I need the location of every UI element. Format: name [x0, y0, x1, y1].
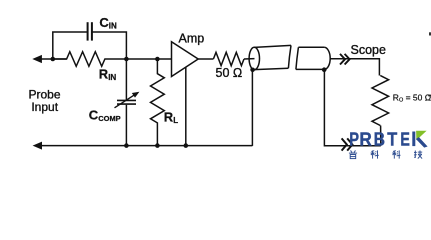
wire: probe input top lead with left arrow — [38, 58, 67, 60]
wire: amp output — [198, 58, 213, 60]
svg-text:RL: RL — [164, 110, 178, 126]
resistor R1 R_IN zigzag — [53, 52, 127, 67]
wire into coax — [244, 58, 255, 60]
svg-text:P: P — [349, 129, 359, 150]
svg-text:B: B — [374, 128, 385, 150]
arrow across C_COMP — [115, 94, 136, 108]
node A: top-left junction — [51, 57, 56, 62]
op-amp U1 Amp triangle — [172, 42, 199, 77]
wire: coax to scope with chevrons — [330, 58, 379, 60]
svg-text:CIN: CIN — [99, 15, 117, 31]
wire: C_IN loop left/top/right — [53, 32, 87, 59]
logo PRBTEK — [349, 129, 359, 150]
svg-text:RO = 50 Ω: RO = 50 Ω — [393, 92, 431, 103]
coax cable segment 2 — [296, 47, 299, 69]
wire: bottom ground rail with left arrow — [38, 145, 252, 147]
chevron marks bottom — [342, 138, 347, 150]
capacitor C2 C_COMP (variable) — [125, 59, 127, 100]
svg-text:Input: Input — [31, 100, 58, 114]
wire: amp ground — [185, 67, 187, 146]
resistor R2 R_L vertical zigzag — [151, 59, 165, 146]
coax cable segment 1 — [249, 47, 259, 69]
logo K (stylized) — [412, 132, 415, 147]
svg-text:CCOMP: CCOMP — [89, 108, 121, 124]
node B: junction R_IN/C_IN/C_COMP — [124, 57, 129, 62]
svg-text:E: E — [400, 129, 410, 150]
node: R_L bottom — [155, 143, 160, 148]
partial cropped glyph at right edge (top) — [429, 32, 431, 35]
logo chinese characters — [350, 150, 353, 152]
svg-text:50 Ω: 50 Ω — [216, 66, 243, 80]
resistor R4 R_O vertical zigzag — [372, 76, 389, 126]
node: coax near-end shield — [250, 68, 255, 73]
wire: down to R_O — [378, 58, 380, 76]
wire: shield left riser — [251, 70, 253, 146]
svg-text:R: R — [359, 129, 371, 150]
svg-text:T: T — [387, 128, 397, 149]
svg-text:Scope: Scope — [351, 43, 386, 57]
capacitor C1 C_IN plates — [87, 22, 89, 40]
wire: node B to amp input — [126, 58, 171, 60]
wire: far shield riser and scope ground return — [324, 70, 380, 146]
node: coax far-end shield — [322, 67, 327, 72]
node C: junction to R_L — [155, 57, 160, 62]
partial cropped glyph at right edge — [428, 95, 431, 97]
svg-text:RIN: RIN — [99, 66, 117, 82]
chevron marks — [340, 54, 345, 65]
node: C_COMP bottom — [124, 143, 129, 148]
svg-text:Amp: Amp — [179, 31, 205, 45]
resistor R3 50ohm zigzag — [213, 52, 244, 65]
node: amp ground bottom — [184, 143, 189, 148]
